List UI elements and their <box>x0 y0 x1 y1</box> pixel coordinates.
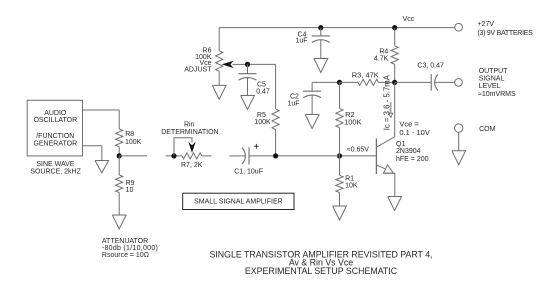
ground C2 <box>305 115 319 129</box>
svg-text:4.7K: 4.7K <box>374 56 389 63</box>
wire attenuator output <box>119 155 147 157</box>
svg-text:DETERMINATION: DETERMINATION <box>161 129 218 136</box>
node collector junction <box>392 80 397 85</box>
svg-text:Rin: Rin <box>184 122 195 129</box>
node wiper junction <box>245 62 250 67</box>
wire R6 top lead <box>218 28 220 51</box>
wire base <box>340 155 377 157</box>
node R2 top junction <box>337 80 342 85</box>
svg-text:R3, 47K: R3, 47K <box>352 70 379 79</box>
svg-text:≈0.65V: ≈0.65V <box>347 147 369 154</box>
wire R5 bottom lead <box>275 130 277 156</box>
svg-text:Rsource = 10Ω: Rsource = 10Ω <box>102 252 149 259</box>
resistor R1 <box>336 156 358 193</box>
svg-text:SMALL SIGNAL AMPLIFIER: SMALL SIGNAL AMPLIFIER <box>194 198 283 205</box>
wire C2 to R3 node <box>312 81 339 83</box>
svg-text:(3) 9V BATTERIES: (3) 9V BATTERIES <box>478 30 534 37</box>
resistor R7 <box>181 153 212 169</box>
wire C2 to ground <box>311 95 313 114</box>
node base junction <box>337 147 369 159</box>
label sine wave source <box>30 161 81 175</box>
svg-text:2N3904: 2N3904 <box>396 148 421 155</box>
ground R9 <box>112 215 126 229</box>
label title <box>209 249 432 276</box>
svg-text:R1: R1 <box>345 175 354 182</box>
resistor R6 <box>184 48 223 74</box>
svg-text:R8: R8 <box>125 131 134 138</box>
svg-text:R9: R9 <box>126 180 135 187</box>
wire R4 bottom lead <box>394 64 396 82</box>
node R7 left junction <box>171 153 176 158</box>
ground Q1 emitter <box>388 197 402 211</box>
svg-text:OSCILLATOR: OSCILLATOR <box>33 117 77 124</box>
svg-text:Vcc: Vcc <box>403 16 415 23</box>
node C4 rail junction <box>318 25 323 30</box>
svg-text:OUTPUT: OUTPUT <box>479 68 509 75</box>
ground R1 <box>333 206 347 220</box>
label attenuator <box>102 238 158 259</box>
svg-text:C2: C2 <box>290 93 299 100</box>
svg-text:EXPERIMENTAL SETUP SCHEMATIC: EXPERIMENTAL SETUP SCHEMATIC <box>245 266 398 276</box>
capacitor C3 <box>395 63 444 91</box>
svg-text:GENERATOR: GENERATOR <box>33 141 77 148</box>
svg-text:SINE WAVE: SINE WAVE <box>36 161 74 168</box>
ground R6 <box>212 85 226 99</box>
wire R7 left <box>166 155 182 157</box>
node R5 junction <box>273 153 278 158</box>
wire C1 to base node <box>249 155 340 157</box>
wiper arrow R7 <box>188 142 195 153</box>
svg-text:ADJUST: ADJUST <box>184 66 212 73</box>
resistor R9 <box>116 156 135 194</box>
svg-text:hFE = 200: hFE = 200 <box>396 156 429 163</box>
resistor R8 <box>116 129 142 156</box>
wire C3 to output terminal <box>435 81 455 83</box>
label Vce range <box>399 120 429 138</box>
wire R1 to ground <box>339 193 341 207</box>
node R4 rail junction <box>392 25 397 30</box>
terminal +27V <box>455 21 533 37</box>
svg-text:SIGNAL: SIGNAL <box>479 76 505 83</box>
wire C4 to ground <box>320 40 322 59</box>
svg-text:C1, 10uF: C1, 10uF <box>234 168 263 175</box>
block audio oscillator <box>27 100 82 156</box>
resistor R2 <box>336 82 362 155</box>
node Vcc label <box>403 16 415 23</box>
terminal COM <box>455 124 496 133</box>
svg-text:100K: 100K <box>344 118 362 127</box>
label Rin determination <box>161 122 218 137</box>
svg-text:1uF: 1uF <box>295 38 307 45</box>
ground C4 <box>314 59 328 73</box>
svg-text:C5: C5 <box>257 81 266 88</box>
svg-text:0.47: 0.47 <box>256 89 270 96</box>
svg-text:LEVEL: LEVEL <box>479 83 501 90</box>
svg-text:100K: 100K <box>125 139 142 146</box>
svg-text:+27V: +27V <box>478 21 495 28</box>
wire wiper to R5 <box>248 64 276 109</box>
svg-text:Ic = 3.6 - 5.7mA: Ic = 3.6 - 5.7mA <box>383 74 392 130</box>
svg-text:SOURCE, 2kHZ: SOURCE, 2kHZ <box>30 169 81 176</box>
svg-text:10: 10 <box>126 187 134 194</box>
current arrow Ic <box>383 74 393 130</box>
capacitor C5 <box>239 64 270 95</box>
svg-text:10K: 10K <box>345 182 358 189</box>
wire C5 to ground <box>247 78 249 96</box>
ground oscillator <box>95 161 109 173</box>
block small signal amplifier <box>183 193 294 209</box>
resistor R3 <box>340 70 395 85</box>
svg-text:1uF: 1uF <box>287 101 299 108</box>
terminal OUTPUT <box>455 68 516 98</box>
capacitor C2 <box>287 82 321 107</box>
svg-text:0.1 - 10V: 0.1 - 10V <box>399 128 429 137</box>
ground COM <box>452 151 466 165</box>
resistor R4 <box>374 28 398 65</box>
transistor Q1 <box>376 138 428 174</box>
wire R6 bottom lead <box>218 71 220 85</box>
node attenuator junction <box>117 153 122 158</box>
capacitor C4 <box>295 28 329 45</box>
svg-text:-80db (1/10,000): -80db (1/10,000) <box>102 245 158 252</box>
svg-text:Q1: Q1 <box>396 141 405 148</box>
svg-text:≈10mVRMS: ≈10mVRMS <box>478 91 516 98</box>
ground C5 <box>241 96 255 110</box>
svg-text:R7, 2K: R7, 2K <box>181 162 203 169</box>
wire R7 shorting bracket <box>174 138 192 156</box>
capacitor C1 <box>229 144 263 176</box>
svg-text:C3, 0.47: C3, 0.47 <box>417 63 444 70</box>
svg-text:100K: 100K <box>254 119 271 126</box>
wire collector <box>377 82 395 146</box>
svg-text:ATTENUATOR: ATTENUATOR <box>102 238 148 245</box>
svg-text:/FUNCTION: /FUNCTION <box>36 133 74 140</box>
wire Vcc rail <box>219 27 455 29</box>
wire oscillator return <box>83 146 102 161</box>
wire COM to ground <box>458 132 460 151</box>
wire oscillator output <box>83 110 120 129</box>
resistor R5 <box>254 109 279 130</box>
wire R9 to ground <box>118 193 120 216</box>
svg-text:COM: COM <box>479 126 496 133</box>
wiper arrow R6 <box>222 61 248 68</box>
wire emitter <box>394 173 396 196</box>
